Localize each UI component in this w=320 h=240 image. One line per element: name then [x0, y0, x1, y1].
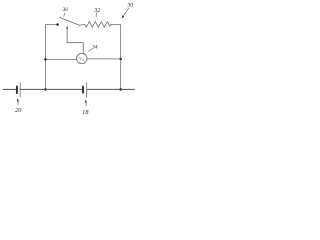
leader line for label 36 [64, 13, 65, 16]
svg-text:30: 30 [126, 3, 133, 9]
wire resistor to top-right corner and right vertical [111, 24, 121, 89]
source VS 34 circle [77, 53, 87, 63]
wire top-left corner and left vertical [45, 25, 56, 90]
battery 18 long plate [86, 83, 88, 98]
svg-text:20: 20 [15, 107, 22, 114]
wire left tap to source VS [45, 58, 76, 60]
battery 20 short plate [16, 86, 18, 93]
leader arrow for label 20 [17, 101, 19, 105]
svg-text:34: 34 [91, 44, 98, 51]
resistor R 32 zigzag [85, 22, 111, 28]
node junction dot bottom-left [44, 88, 47, 91]
leader arrow for label 30 [123, 8, 129, 16]
wire bottom bus [3, 88, 16, 90]
switch S 36 blade [60, 17, 80, 25]
wire VS right to right vertical [87, 58, 121, 60]
battery 20 long plate [19, 83, 21, 97]
leader line for label 34 [89, 49, 93, 52]
wire blade to resistor [79, 23, 84, 26]
svg-text:VS: VS [79, 56, 84, 61]
node junction dot bottom-right [119, 88, 122, 91]
arrowhead touching switch blade [66, 25, 68, 29]
svg-text:32: 32 [93, 8, 100, 14]
leader arrow for label 18 [85, 102, 87, 106]
battery 18 short plate [82, 87, 84, 93]
switch S 36 contact dot [56, 23, 59, 26]
leader line for label 32 [95, 13, 98, 17]
svg-text:36: 36 [61, 7, 68, 13]
svg-text:18: 18 [82, 109, 89, 116]
wire from switch blade arrow down to VS top [67, 28, 83, 53]
node junction dot left tap [44, 58, 47, 61]
node junction dot right tap [119, 58, 122, 61]
